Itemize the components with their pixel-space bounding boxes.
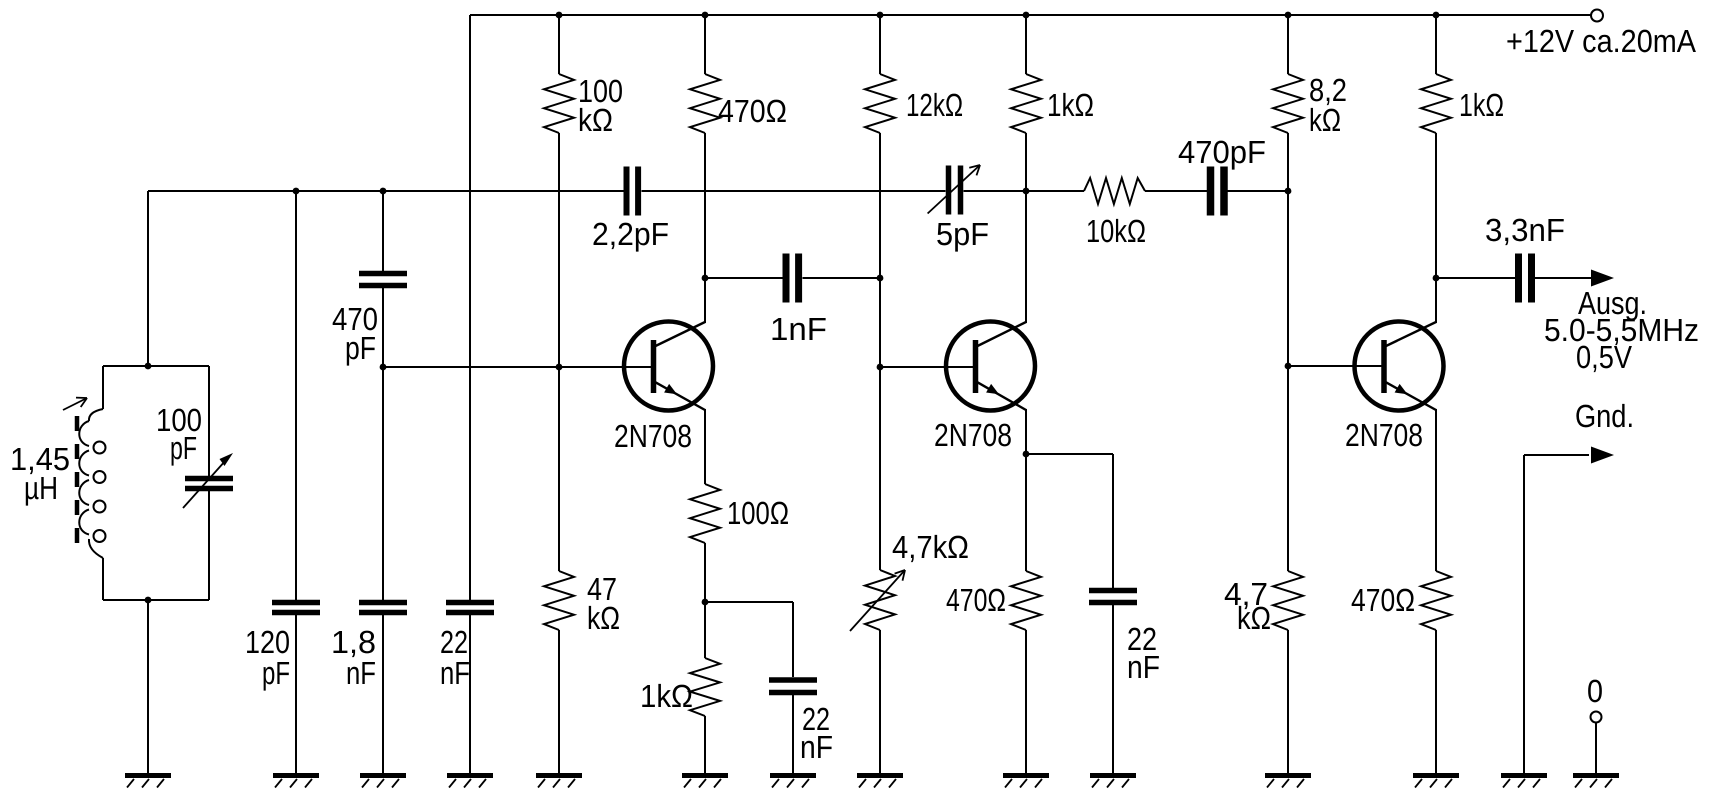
junction rail x1288 (1285, 12, 1292, 19)
wire 100k to base node (558, 133, 560, 367)
label kΩ (8,2k) (1309, 102, 1341, 138)
svg-text:470Ω: 470Ω (718, 93, 787, 129)
label 5pF (936, 216, 989, 252)
label kΩ (100k) (578, 102, 613, 138)
wire 1k top lead (Q2) (1025, 15, 1027, 74)
label +12V ca.20mA (1506, 23, 1697, 59)
label 1kΩ (Q1 emitter) (640, 678, 693, 714)
terminal 0 (1591, 712, 1602, 723)
wire 47k to ground (558, 630, 560, 773)
capacitor 22nF (Q1 bypass) (769, 680, 817, 693)
wire Q2 base line (880, 366, 975, 368)
junction bus x1026 (1023, 188, 1030, 195)
svg-text:kΩ: kΩ (1309, 102, 1341, 138)
label pF (tank) (170, 430, 197, 466)
inductor core (dashed) (75, 416, 80, 550)
junction 1nF right (877, 275, 884, 282)
junction Q2 base node (877, 364, 884, 371)
svg-text:nF: nF (346, 655, 376, 691)
resistor 1k (Q2 collector) (1011, 74, 1041, 133)
wire bus right segment (1228, 190, 1289, 192)
svg-text:kΩ: kΩ (587, 600, 620, 636)
svg-text:4,7kΩ: 4,7kΩ (892, 529, 969, 565)
wire +12V top supply rail (470, 14, 1591, 16)
label 120 (245, 624, 290, 660)
svg-text:+12V ca.20mA: +12V ca.20mA (1506, 23, 1697, 59)
wire Q1 base line (383, 366, 653, 368)
svg-text:pF: pF (345, 330, 376, 366)
label 8,2 (1309, 72, 1347, 108)
svg-text:2N708: 2N708 (934, 417, 1012, 453)
label 1kΩ (Q2) (1047, 87, 1094, 123)
svg-text:0: 0 (1587, 673, 1603, 709)
ground (1,8nF) (360, 776, 406, 788)
wire 4,7k to ground (K) (1287, 630, 1289, 773)
wire 22nF bottom lead (469, 615, 471, 773)
ground (Q1 bypass) (770, 776, 816, 788)
wire 120pF top lead (295, 191, 297, 600)
wire 100R to node (704, 543, 706, 602)
junction base line x383 (380, 364, 387, 371)
inductor tap arrow (63, 398, 87, 410)
wire 0 terminal lead (1595, 723, 1597, 774)
label 100 (tank) (156, 402, 202, 438)
svg-text:1kΩ: 1kΩ (1047, 87, 1094, 123)
svg-text:0,5V: 0,5V (1576, 339, 1633, 375)
wire output to arrow (1535, 277, 1592, 279)
resistor 470R (Q1 collector) (690, 74, 720, 133)
label 22 (rail bypass) (440, 624, 468, 660)
wire Q3 base line (1288, 365, 1384, 367)
ground (0 terminal) (1573, 776, 1619, 788)
wire bus segment to 10k (964, 190, 1085, 192)
label 1nF (770, 311, 827, 347)
wire Q2 emitter (1025, 409, 1027, 454)
wire rail left drop (469, 15, 471, 600)
ground (Q3 emitter) (1413, 776, 1459, 788)
resistor 1k (Q3 collector) (1421, 74, 1451, 133)
wire tank box left edge upper (102, 366, 104, 409)
svg-text:pF: pF (170, 430, 197, 466)
label 3,3nF (1485, 212, 1565, 248)
inductor 1,45uH (79, 409, 105, 558)
junction bus x383 (380, 188, 387, 195)
junction rail x880 (877, 12, 884, 19)
capacitor 470pF (coupling) (1211, 167, 1225, 216)
wire Q1 emitter branch (705, 602, 793, 677)
wire 8,2k top lead (1287, 15, 1289, 74)
label nF (1,8nF) (346, 655, 376, 691)
wire 4,7k var top lead (879, 367, 881, 570)
wire 1k top lead (Q3) (1435, 15, 1437, 74)
capacitor 1nF (786, 254, 799, 303)
wire 4,7k top lead (Q3) (1287, 366, 1289, 571)
label 22 (Q1 bypass) (802, 701, 830, 737)
label nF (rail bypass) (440, 655, 470, 691)
capacitor 22nF (Q2 bypass) (1089, 591, 1137, 603)
wire 470R top lead (704, 15, 706, 74)
label µH (24, 470, 58, 506)
label pF (120pF) (262, 655, 290, 691)
junction Q2 emitter node (1023, 451, 1030, 458)
resistor 8,2k (1273, 74, 1303, 133)
wire 470R to ground (Q3) (1435, 630, 1437, 773)
ground (4,7k) (857, 776, 903, 788)
ground (47k) (536, 776, 582, 788)
svg-text:3,3nF: 3,3nF (1485, 212, 1565, 248)
svg-text:12kΩ: 12kΩ (906, 87, 963, 123)
ground (Q2 emitter) (1003, 776, 1049, 788)
wire tank box right edge upper (208, 366, 210, 476)
svg-text:2,2pF: 2,2pF (592, 216, 669, 252)
junction bus x1288 (1285, 188, 1292, 195)
junction bus x296 (293, 188, 300, 195)
label 12kΩ (906, 87, 963, 123)
label Ausg. (1578, 285, 1647, 321)
label 2,2pF (592, 216, 669, 252)
wire 1,8nF bottom lead (382, 615, 384, 773)
junction rail x559 (556, 12, 563, 19)
label pF (470pF) (345, 330, 376, 366)
resistor 470R (Q3 emitter) (1421, 571, 1451, 630)
label 4,7kΩ (892, 529, 969, 565)
svg-text:1kΩ: 1kΩ (640, 678, 693, 714)
ground (Q1 emitter) (682, 776, 728, 788)
ground (4,7k Q3) (1265, 776, 1311, 788)
wire 1k to ground (704, 716, 706, 773)
label nF (Q1 bypass) (800, 729, 833, 765)
wire tank top lead (147, 191, 149, 366)
wire 47k top lead (558, 367, 560, 571)
junction Q1 emitter node (702, 599, 709, 606)
capacitor 120pF (272, 603, 320, 613)
resistor 10k (1084, 178, 1145, 204)
label 1kΩ (Q3) (1459, 87, 1504, 123)
wire 470R to ground (Q2) (1025, 630, 1027, 773)
svg-text:nF: nF (800, 729, 833, 765)
svg-text:10kΩ: 10kΩ (1086, 213, 1146, 249)
wire Q3 emitter (1435, 409, 1437, 571)
wire Gnd lead (1524, 455, 1589, 773)
wire 8,2k to base node (1287, 133, 1289, 366)
wire 1,8nF top lead (382, 367, 384, 600)
label 47 (587, 571, 617, 607)
capacitor 470pF (base) (359, 274, 407, 286)
label Gnd. (1575, 398, 1634, 434)
junction Q1 base node (556, 364, 563, 371)
transistor Q3 2N708 (1355, 322, 1444, 411)
svg-text:2N708: 2N708 (1345, 417, 1423, 453)
capacitor 5pF (trimmer) (928, 165, 980, 215)
wire 12k top lead (879, 15, 881, 74)
wire bus mid segment (642, 190, 946, 192)
label 10kΩ (1086, 213, 1146, 249)
Gnd arrow (1591, 447, 1614, 464)
svg-text:470Ω: 470Ω (1351, 582, 1415, 618)
label kΩ (47k) (587, 600, 620, 636)
capacitor 3,3nF (1519, 254, 1532, 303)
ground (120pF) (273, 776, 319, 788)
label nF (Q2 bypass) (1127, 649, 1160, 685)
wire 120pF bottom lead (295, 615, 297, 773)
junction rail x1436 (1433, 12, 1440, 19)
junction 1nF left (702, 275, 709, 282)
svg-text:1nF: 1nF (770, 311, 827, 347)
label 100 (100k) (578, 73, 623, 109)
resistor 1k (Q1 emitter) (690, 658, 720, 716)
wire 100k top lead (558, 15, 560, 74)
label 1,8 (331, 624, 376, 660)
svg-text:100Ω: 100Ω (727, 495, 789, 531)
capacitor 100pF (variable) (183, 453, 233, 508)
wire 22nF to ground (Q2) (1112, 605, 1114, 774)
wire tank box top edge (103, 365, 209, 367)
label 470Ω (Q1) (718, 93, 787, 129)
svg-text:2N708: 2N708 (614, 418, 692, 454)
svg-text:1kΩ: 1kΩ (1459, 87, 1504, 123)
label 2N708 (Q1) (614, 418, 692, 454)
svg-text:nF: nF (1127, 649, 1160, 685)
label 470Ω (Q2 emitter) (946, 582, 1006, 618)
svg-text:5pF: 5pF (936, 216, 989, 252)
junction rail x1026 (1023, 12, 1030, 19)
svg-text:µH: µH (24, 470, 58, 506)
svg-text:kΩ: kΩ (1237, 600, 1271, 636)
resistor 4,7k (variable) (850, 570, 905, 631)
wire 470pF to base line (382, 287, 384, 367)
wire tank box left edge lower (102, 558, 104, 600)
resistor 12k (865, 74, 895, 133)
transistor Q2 2N708 (946, 322, 1035, 411)
wire 470R top lead (Q2) (1025, 454, 1027, 571)
ground (rail bypass) (447, 776, 493, 788)
ground (Gnd lead) (1501, 776, 1547, 788)
wire Q2 emitter branch (1026, 454, 1113, 588)
svg-text:470Ω: 470Ω (946, 582, 1006, 618)
label 2N708 (Q3) (1345, 417, 1423, 453)
wire tank to ground (147, 600, 149, 773)
label 470Ω (Q3 emitter) (1351, 582, 1415, 618)
wire Q1 collector (704, 133, 706, 323)
ground (Q2 bypass) (1090, 776, 1136, 788)
wire tank box bottom edge (103, 599, 209, 601)
label kΩ (K) (1237, 600, 1271, 636)
wire 470pF top lead (382, 191, 384, 271)
label 470pF right (1178, 134, 1266, 170)
junction Q3 base node (1285, 363, 1292, 370)
wire bus segment 10k to 470pF (1145, 190, 1207, 192)
svg-text:Gnd.: Gnd. (1575, 398, 1634, 434)
svg-text:470pF: 470pF (1178, 134, 1266, 170)
wire 1nF left lead (705, 277, 783, 279)
output arrow (1591, 270, 1614, 287)
wire bus left segment (148, 190, 624, 192)
resistor 470R (Q2 emitter) (1011, 571, 1041, 630)
resistor 100k (544, 74, 574, 133)
wire 1k top lead (704, 602, 706, 658)
wire output lead (1436, 277, 1515, 279)
label 22 (Q2 bypass) (1127, 621, 1157, 657)
junction tank top (145, 363, 152, 370)
label 1,45 (10, 441, 70, 477)
wire Q2 collector (1025, 133, 1027, 323)
capacitor 2,2pF (627, 167, 639, 216)
label 0 (1587, 673, 1603, 709)
transistor Q1 2N708 (624, 322, 713, 411)
label 2N708 (Q2) (934, 417, 1012, 453)
label 5.0-5,5MHz (1544, 312, 1699, 348)
svg-text:pF: pF (262, 655, 290, 691)
svg-text:kΩ: kΩ (578, 102, 613, 138)
label 4,7 (K) (1224, 576, 1268, 612)
wire 4,7k var to ground (879, 630, 881, 773)
label 470 (cap) (332, 301, 378, 337)
ground (tank) (125, 776, 171, 788)
junction output node (1433, 275, 1440, 282)
capacitor 22nF (rail bypass) (446, 603, 494, 613)
svg-text:nF: nF (440, 655, 470, 691)
resistor 47k (544, 571, 574, 630)
capacitor 1,8nF (359, 603, 407, 613)
resistor 4,7k (Q3 base) (1273, 571, 1303, 630)
wire 12k to base node (879, 133, 881, 367)
wire Q3 collector (1435, 133, 1437, 323)
resistor 100R (Q1 emitter) (690, 484, 720, 543)
junction rail x705 (702, 12, 709, 19)
wire 22nF to ground (Q1) (792, 694, 794, 773)
wire tank box right edge lower (208, 491, 210, 600)
terminal +12V (1591, 10, 1603, 22)
label 100Ω (727, 495, 789, 531)
label 0,5V (1576, 339, 1633, 375)
wire Q1 emitter (704, 409, 706, 484)
wire 1nF right lead (803, 277, 881, 279)
junction tank bottom (145, 597, 152, 604)
